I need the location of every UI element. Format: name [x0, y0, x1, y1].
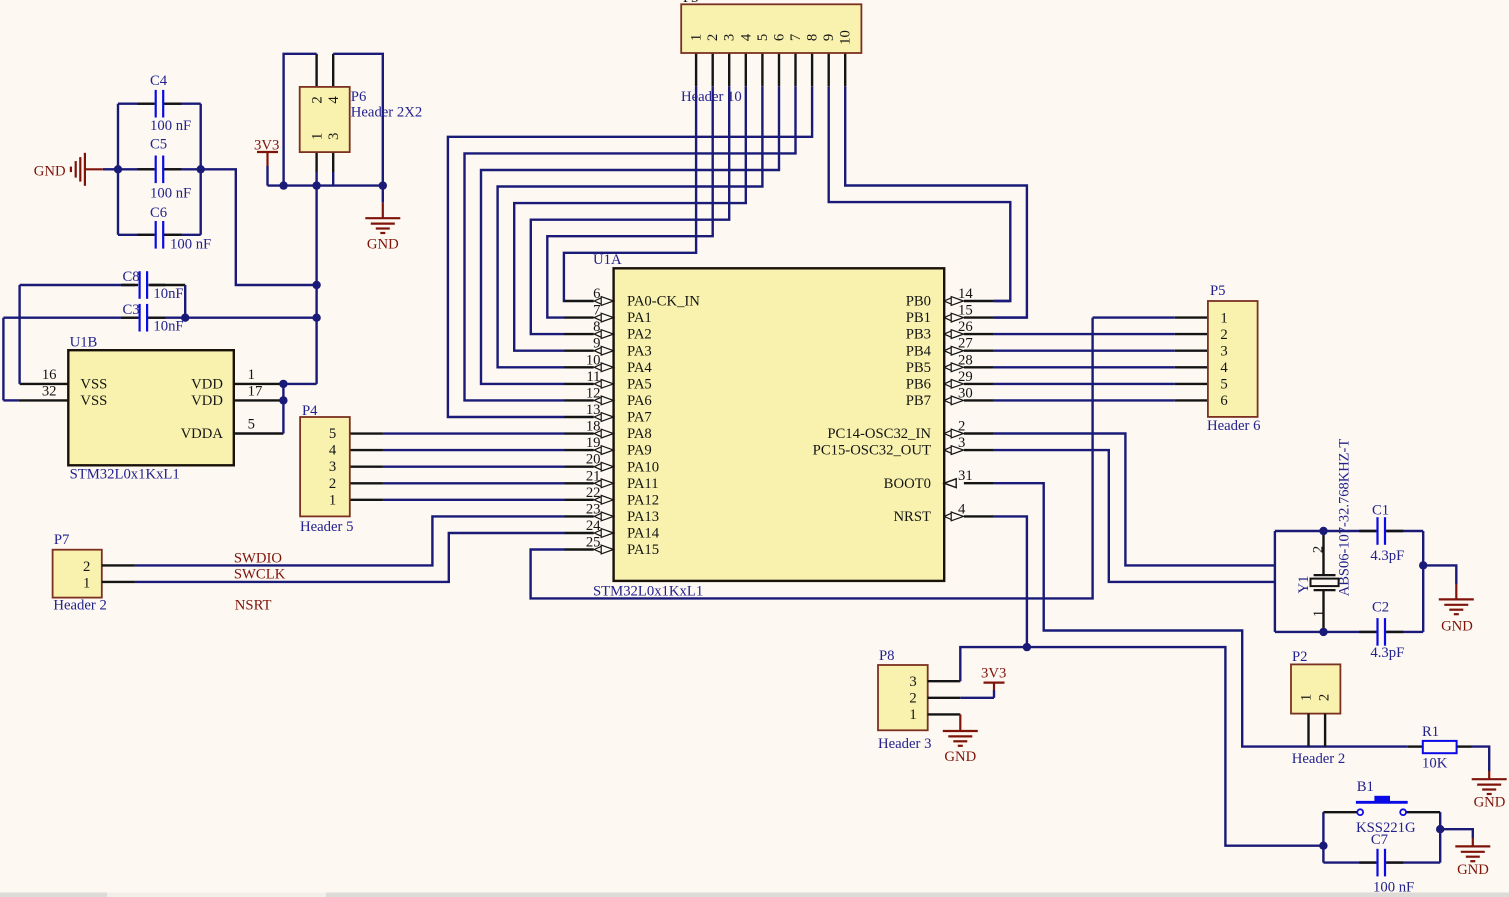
- svg-text:17: 17: [248, 383, 263, 399]
- svg-text:P3: P3: [683, 0, 699, 6]
- svg-text:BOOT0: BOOT0: [884, 476, 931, 492]
- svg-text:ABS06-107-32.768KHZ-T: ABS06-107-32.768KHZ-T: [1337, 439, 1353, 597]
- svg-text:PA8: PA8: [627, 426, 652, 442]
- svg-text:U1A: U1A: [593, 252, 622, 268]
- svg-text:P8: P8: [879, 648, 895, 664]
- svg-text:1: 1: [329, 492, 336, 508]
- svg-text:27: 27: [958, 336, 973, 352]
- svg-text:Header 5: Header 5: [300, 519, 353, 535]
- svg-text:2: 2: [705, 34, 721, 41]
- svg-text:GND: GND: [367, 237, 399, 253]
- svg-text:8: 8: [805, 34, 821, 41]
- svg-text:PA15: PA15: [627, 542, 659, 558]
- svg-text:PB0: PB0: [906, 294, 931, 310]
- svg-text:NRST: NRST: [893, 509, 931, 525]
- svg-text:PB5: PB5: [906, 360, 931, 376]
- svg-text:PB1: PB1: [906, 310, 931, 326]
- svg-text:16: 16: [42, 367, 57, 383]
- svg-text:6: 6: [1220, 393, 1227, 409]
- svg-text:13: 13: [586, 402, 601, 418]
- svg-text:PA11: PA11: [627, 476, 659, 492]
- svg-text:100 nF: 100 nF: [150, 118, 191, 134]
- svg-text:Header 2: Header 2: [53, 598, 106, 614]
- svg-text:3: 3: [722, 34, 738, 41]
- svg-text:C3: C3: [122, 302, 139, 318]
- svg-text:P5: P5: [1210, 283, 1226, 299]
- svg-text:SWCLK: SWCLK: [234, 566, 286, 582]
- svg-text:PA10: PA10: [627, 459, 659, 475]
- svg-text:PA13: PA13: [627, 509, 659, 525]
- svg-text:3: 3: [958, 435, 965, 451]
- svg-text:2: 2: [958, 419, 965, 435]
- svg-text:5: 5: [248, 417, 255, 433]
- svg-text:2: 2: [310, 96, 326, 103]
- svg-text:4.3pF: 4.3pF: [1370, 548, 1404, 564]
- svg-text:Y1: Y1: [1296, 576, 1312, 594]
- svg-text:5: 5: [755, 34, 771, 41]
- svg-text:PA2: PA2: [627, 327, 652, 343]
- svg-text:10nF: 10nF: [153, 286, 183, 302]
- svg-text:2: 2: [1317, 694, 1333, 701]
- svg-text:24: 24: [586, 518, 601, 534]
- svg-text:P4: P4: [302, 403, 318, 419]
- svg-text:4: 4: [329, 443, 337, 459]
- svg-text:P7: P7: [54, 532, 70, 548]
- svg-text:PA5: PA5: [627, 377, 652, 393]
- svg-text:100 nF: 100 nF: [170, 237, 211, 253]
- svg-text:C2: C2: [1372, 600, 1389, 616]
- svg-text:P2: P2: [1292, 649, 1308, 665]
- svg-text:C5: C5: [150, 137, 167, 153]
- svg-text:GND: GND: [1474, 795, 1506, 811]
- svg-text:5: 5: [1220, 377, 1227, 393]
- svg-text:PA0-CK_IN: PA0-CK_IN: [627, 294, 700, 310]
- svg-text:PC14-OSC32_IN: PC14-OSC32_IN: [827, 426, 931, 442]
- svg-text:C6: C6: [150, 205, 167, 221]
- svg-text:100 nF: 100 nF: [150, 186, 191, 202]
- svg-text:2: 2: [1220, 327, 1227, 343]
- svg-text:9: 9: [593, 336, 600, 352]
- svg-text:R1: R1: [1422, 724, 1439, 740]
- svg-text:2: 2: [329, 476, 336, 492]
- svg-text:3V3: 3V3: [254, 138, 279, 154]
- svg-text:10: 10: [838, 30, 854, 45]
- svg-text:10nF: 10nF: [153, 319, 183, 335]
- svg-text:26: 26: [958, 319, 973, 335]
- svg-text:14: 14: [958, 286, 973, 302]
- svg-text:C8: C8: [122, 269, 139, 285]
- svg-text:1: 1: [83, 575, 90, 591]
- svg-text:5: 5: [329, 426, 336, 442]
- svg-text:4: 4: [738, 33, 754, 41]
- svg-text:GND: GND: [34, 164, 66, 180]
- svg-text:PA7: PA7: [627, 410, 652, 426]
- svg-text:23: 23: [586, 501, 601, 517]
- svg-text:PB6: PB6: [906, 377, 931, 393]
- svg-text:C1: C1: [1372, 502, 1389, 518]
- svg-text:3: 3: [329, 459, 336, 475]
- svg-text:32: 32: [42, 383, 57, 399]
- svg-text:1: 1: [310, 133, 326, 140]
- svg-text:PA1: PA1: [627, 310, 652, 326]
- svg-text:STM32L0x1KxL1: STM32L0x1KxL1: [70, 467, 180, 483]
- svg-text:20: 20: [586, 452, 601, 468]
- svg-text:8: 8: [593, 319, 600, 335]
- svg-text:21: 21: [586, 468, 601, 484]
- svg-text:25: 25: [586, 535, 601, 551]
- svg-text:22: 22: [586, 485, 601, 501]
- svg-text:Header 6: Header 6: [1207, 418, 1260, 434]
- svg-text:29: 29: [958, 369, 973, 385]
- svg-text:1: 1: [1299, 694, 1315, 701]
- svg-text:PA12: PA12: [627, 492, 659, 508]
- svg-text:Header 2X2: Header 2X2: [351, 105, 422, 121]
- svg-text:19: 19: [586, 435, 601, 451]
- svg-text:4: 4: [326, 96, 342, 104]
- svg-text:STM32L0x1KxL1: STM32L0x1KxL1: [593, 584, 703, 600]
- svg-text:VDDA: VDDA: [181, 426, 224, 442]
- svg-text:7: 7: [593, 303, 600, 319]
- svg-text:4: 4: [1220, 360, 1228, 376]
- svg-text:PB7: PB7: [906, 393, 931, 409]
- svg-text:1: 1: [909, 707, 916, 723]
- svg-text:18: 18: [586, 419, 601, 435]
- svg-text:12: 12: [586, 385, 601, 401]
- svg-text:PA6: PA6: [627, 393, 652, 409]
- svg-text:7: 7: [788, 34, 804, 41]
- svg-text:P6: P6: [351, 89, 367, 105]
- svg-text:2: 2: [909, 691, 916, 707]
- svg-text:31: 31: [958, 468, 973, 484]
- svg-text:VDD: VDD: [191, 393, 223, 409]
- svg-text:C4: C4: [150, 73, 168, 89]
- svg-text:PA14: PA14: [627, 526, 660, 542]
- svg-text:PA3: PA3: [627, 343, 652, 359]
- svg-text:3: 3: [909, 674, 916, 690]
- svg-text:NSRT: NSRT: [235, 598, 272, 614]
- svg-text:28: 28: [958, 352, 973, 368]
- svg-text:1: 1: [1311, 610, 1327, 617]
- svg-text:VSS: VSS: [80, 377, 107, 393]
- svg-text:PA9: PA9: [627, 443, 652, 459]
- svg-text:PB4: PB4: [906, 343, 932, 359]
- svg-text:GND: GND: [944, 749, 976, 765]
- svg-text:B1: B1: [1357, 779, 1374, 795]
- svg-text:GND: GND: [1441, 619, 1473, 635]
- svg-text:SWDIO: SWDIO: [234, 551, 282, 567]
- svg-text:6: 6: [593, 286, 600, 302]
- svg-text:PC15-OSC32_OUT: PC15-OSC32_OUT: [813, 443, 931, 459]
- svg-text:VSS: VSS: [80, 393, 107, 409]
- svg-text:Header 10: Header 10: [681, 89, 742, 105]
- svg-text:Header 3: Header 3: [878, 736, 931, 752]
- svg-text:GND: GND: [1457, 862, 1489, 878]
- svg-text:30: 30: [958, 385, 973, 401]
- svg-text:3: 3: [326, 133, 342, 140]
- svg-text:VDD: VDD: [191, 377, 223, 393]
- svg-text:1: 1: [689, 34, 705, 41]
- svg-text:2: 2: [83, 559, 90, 575]
- svg-text:PA4: PA4: [627, 360, 652, 376]
- svg-text:1: 1: [1220, 310, 1227, 326]
- svg-text:4.3pF: 4.3pF: [1370, 645, 1404, 661]
- svg-text:11: 11: [586, 369, 600, 385]
- svg-text:6: 6: [772, 34, 788, 41]
- svg-text:Header 2: Header 2: [1292, 751, 1345, 767]
- svg-text:1: 1: [248, 367, 255, 383]
- svg-text:10K: 10K: [1422, 756, 1448, 772]
- svg-text:U1B: U1B: [70, 335, 98, 351]
- svg-text:4: 4: [958, 501, 966, 517]
- svg-text:PB3: PB3: [906, 327, 931, 343]
- svg-text:10: 10: [586, 352, 601, 368]
- svg-text:3V3: 3V3: [981, 666, 1006, 682]
- svg-text:C7: C7: [1371, 832, 1388, 848]
- svg-text:15: 15: [958, 303, 973, 319]
- svg-text:9: 9: [821, 34, 837, 41]
- svg-text:3: 3: [1220, 344, 1227, 360]
- svg-text:2: 2: [1311, 546, 1327, 553]
